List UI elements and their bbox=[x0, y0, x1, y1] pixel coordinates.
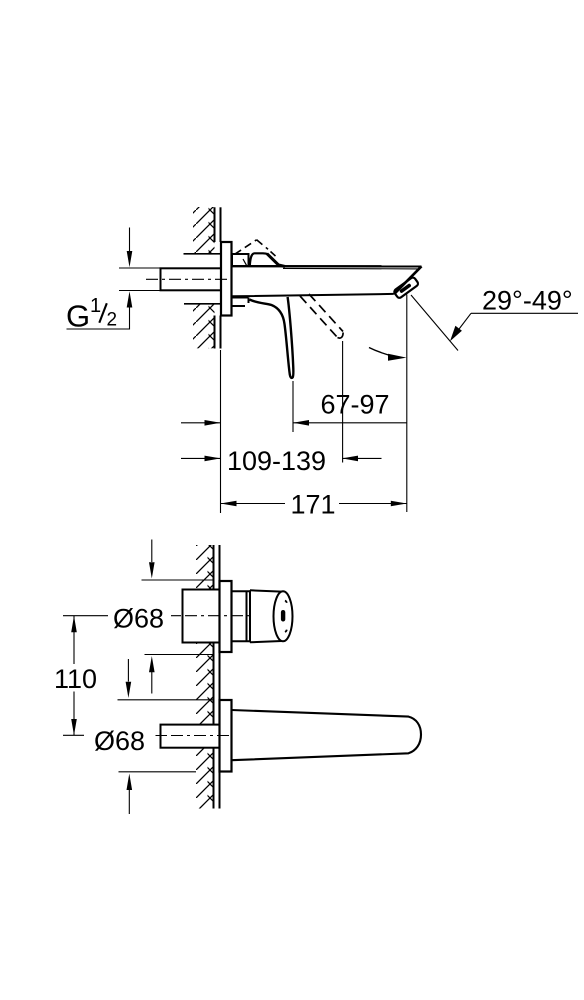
handle cone bbox=[250, 590, 293, 642]
handle slot bbox=[281, 610, 285, 622]
29-49 leader from aerator bbox=[411, 295, 458, 351]
mid extension line upper bbox=[145, 654, 215, 656]
svg-text:29°-49°: 29°-49° bbox=[482, 286, 573, 316]
valve center line bbox=[171, 615, 252, 617]
svg-text:67-97: 67-97 bbox=[320, 390, 389, 420]
svg-text:G: G bbox=[66, 299, 90, 334]
lever solid bbox=[250, 297, 294, 378]
bottom extension line bbox=[119, 771, 197, 773]
swivel arrow bbox=[369, 348, 395, 357]
handle face ellipse bbox=[274, 591, 293, 641]
spout top inner line bbox=[283, 267, 420, 270]
bottom sleeve bbox=[232, 298, 249, 307]
dim 171 bbox=[221, 503, 407, 505]
pipe center line bbox=[146, 278, 232, 280]
top sleeve bbox=[232, 254, 249, 266]
mid extension line lower bbox=[118, 699, 215, 701]
wall hatch upper bbox=[193, 207, 215, 348]
dim 67-97 bbox=[181, 422, 407, 424]
top extension line bbox=[142, 579, 215, 581]
svg-text:109-139: 109-139 bbox=[227, 446, 326, 476]
spout escutcheon plate bbox=[220, 700, 232, 772]
body thin line top bbox=[184, 253, 222, 255]
bottom up arrow bbox=[128, 790, 130, 814]
dome bold slope bbox=[267, 254, 285, 267]
valve body rect bbox=[183, 590, 220, 643]
handle face detail dots bbox=[285, 601, 287, 603]
extension line dashed lever tip bbox=[342, 341, 344, 463]
aerator bbox=[393, 277, 419, 299]
svg-text:Ø68: Ø68 bbox=[94, 726, 145, 756]
G1/2 label slash bbox=[99, 303, 107, 323]
pipe extension line bottom bbox=[119, 290, 161, 292]
lever dashed open position bbox=[300, 294, 343, 338]
spout tube bbox=[232, 710, 422, 760]
dashed lever raised position bbox=[235, 240, 276, 256]
extension line lever tip bbox=[292, 381, 294, 432]
cartridge dome bbox=[250, 253, 268, 265]
mid down arrow bbox=[127, 659, 129, 682]
mid up arrow bbox=[151, 672, 153, 694]
wall hatch lower bbox=[196, 545, 214, 809]
dim 110 vertical bbox=[73, 616, 75, 664]
pipe extension line top bbox=[119, 267, 161, 269]
valve escutcheon plate bbox=[220, 581, 232, 652]
G1/2 dimension arrows bbox=[129, 228, 131, 252]
extension line wall face bbox=[220, 350, 222, 513]
svg-text:110: 110 bbox=[54, 664, 97, 694]
spout stub rect bbox=[161, 725, 220, 748]
spout center line bbox=[156, 735, 231, 737]
spout bottom edge bbox=[232, 294, 394, 296]
110 extension top bbox=[63, 615, 108, 617]
top arrow down bbox=[151, 540, 153, 563]
handle neck bbox=[232, 590, 251, 642]
110 extension bottom bbox=[63, 734, 84, 736]
supply pipe G1/2 bbox=[161, 268, 222, 290]
extension line spout tip bbox=[406, 295, 408, 513]
29-49 leader with arrow bbox=[456, 313, 471, 333]
dim 109-139 bbox=[181, 457, 382, 459]
spout top edge bbox=[232, 265, 422, 267]
escutcheon plate side view bbox=[221, 242, 232, 316]
svg-text:2: 2 bbox=[107, 310, 118, 331]
svg-text:1: 1 bbox=[90, 295, 101, 317]
wall lines upper bbox=[215, 207, 221, 348]
body thin line bottom bbox=[184, 303, 221, 305]
svg-text:Ø68: Ø68 bbox=[113, 604, 164, 634]
wall lines lower bbox=[214, 545, 220, 809]
spout tip slope bbox=[394, 266, 422, 294]
29-49 underline bbox=[471, 312, 578, 314]
svg-text:171: 171 bbox=[290, 490, 335, 520]
G1/2 label bbox=[66, 295, 117, 334]
